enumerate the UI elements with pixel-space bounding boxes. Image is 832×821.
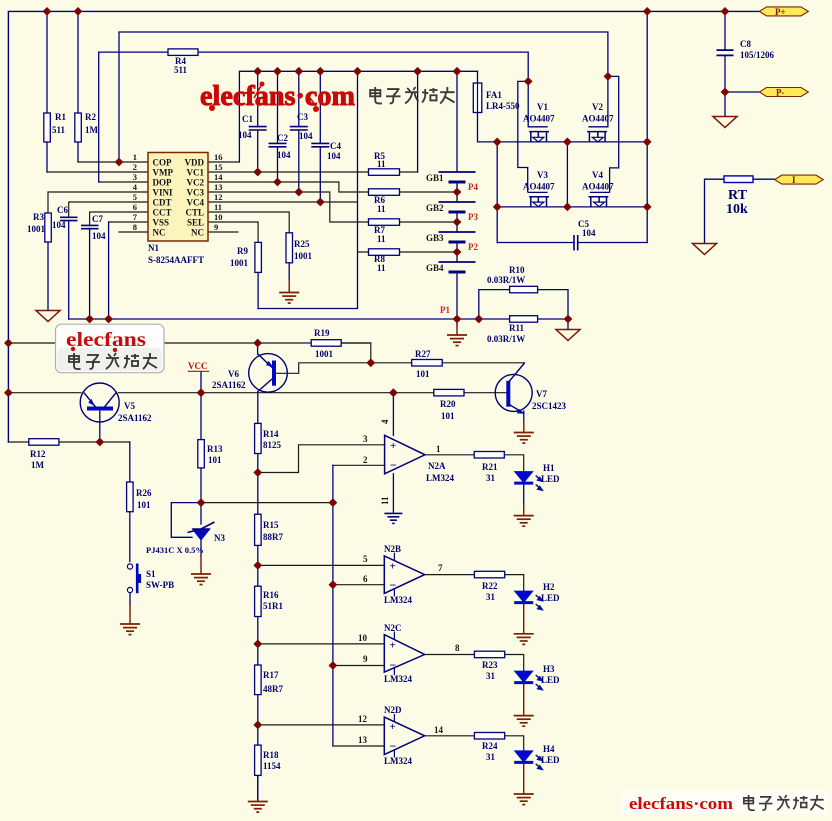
- wire P1 ground stem: [456, 319, 458, 325]
- svg-text:−: −: [390, 739, 397, 753]
- resistor R11: [510, 316, 538, 323]
- wire gate link mid: [566, 142, 568, 207]
- resistor R10: [510, 286, 538, 293]
- wire R22 to LED H2: [505, 575, 524, 591]
- node pin6 tap: [329, 580, 338, 589]
- wire N2A output to R21: [425, 454, 474, 456]
- capacitor C7: [81, 225, 99, 228]
- ground right of R11: [556, 330, 580, 341]
- svg-text:C7: C7: [92, 214, 103, 224]
- svg-text:R23: R23: [482, 660, 498, 670]
- svg-text:1154: 1154: [263, 761, 281, 771]
- wire N2C pin10 row: [258, 643, 385, 645]
- resistor R26: [127, 482, 134, 512]
- wire C6 lead to B- bus: [68, 220, 70, 319]
- resistor R19: [311, 340, 341, 347]
- wire N2B output to R22: [425, 574, 475, 576]
- resistor R16: [255, 586, 262, 616]
- wire R23 to LED H3: [505, 655, 524, 672]
- svg-text:11: 11: [380, 496, 390, 505]
- wire R18 ground stem: [257, 775, 259, 801]
- fuse FA1: [473, 83, 482, 113]
- wire LED H2 ground stem: [523, 603, 525, 634]
- svg-text:NC: NC: [153, 228, 166, 238]
- svg-text:LED: LED: [541, 593, 560, 603]
- wire R21 to LED H1: [504, 455, 523, 472]
- battery GB3: [439, 232, 476, 242]
- wire R13 to N3: [200, 468, 202, 524]
- capacitor C6: [60, 217, 78, 220]
- svg-text:elecfans: elecfans: [66, 329, 146, 351]
- svg-text:R21: R21: [482, 462, 498, 472]
- node R15 R16 tap: [253, 561, 262, 570]
- transistor V4 AO4407: [589, 192, 610, 207]
- wire V6 base jog: [276, 363, 371, 374]
- svg-text:GB4: GB4: [426, 263, 444, 273]
- wire R3 lead to ground: [47, 242, 49, 311]
- port tag P+: [759, 7, 808, 16]
- wire N2B pin5 row: [258, 564, 385, 566]
- wire P- ground stem: [724, 92, 726, 117]
- svg-text:2: 2: [133, 162, 137, 172]
- node Vref N3: [197, 498, 206, 507]
- label GB1-GB4: [426, 173, 444, 273]
- svg-text:1: 1: [133, 152, 137, 162]
- svg-text:LM324: LM324: [384, 595, 412, 605]
- transistor V2 AO4407: [587, 76, 619, 192]
- IC N1 pin names: [153, 158, 205, 238]
- svg-text:1001: 1001: [315, 349, 334, 359]
- wire pin1 row: [78, 161, 148, 163]
- svg-text:V2: V2: [592, 102, 603, 112]
- capacitor C3: [290, 127, 308, 130]
- svg-text:12: 12: [214, 192, 223, 202]
- resistor R1: [44, 113, 51, 142]
- svg-text:R3: R3: [33, 212, 44, 222]
- svg-text:P4: P4: [468, 182, 478, 192]
- svg-text:R12: R12: [30, 449, 46, 459]
- svg-text:11: 11: [377, 263, 386, 273]
- svg-text:R15: R15: [263, 520, 279, 530]
- diode LED H4: [514, 751, 542, 770]
- svg-text:R1: R1: [55, 112, 66, 122]
- svg-text:N2C: N2C: [384, 623, 402, 633]
- wire pin7 drop to B- bus: [108, 222, 110, 319]
- opamp N2C LM324: [384, 632, 424, 676]
- svg-text:511: 511: [174, 65, 188, 75]
- svg-text:GB3: GB3: [426, 233, 444, 243]
- node R19 to R27: [366, 358, 375, 367]
- wire V5 base stem: [99, 409, 101, 443]
- ground under N3: [191, 574, 211, 585]
- resistor R14: [255, 423, 262, 453]
- wire V7 emitter ground stem: [523, 411, 525, 420]
- resistor R20: [434, 389, 464, 396]
- svg-text:N1: N1: [148, 243, 159, 253]
- svg-text:V7: V7: [536, 389, 547, 399]
- wire R9 bottom loop: [257, 272, 259, 308]
- node R17 R18 tap: [253, 721, 262, 730]
- wire C7 lead to B- bus: [89, 228, 91, 319]
- wire FA1 leads: [478, 71, 498, 142]
- svg-text:2SA1162: 2SA1162: [118, 413, 152, 423]
- capacitor C4: [311, 143, 329, 146]
- svg-text:101: 101: [441, 411, 455, 421]
- node inverting rail top: [329, 498, 338, 507]
- svg-text:C3: C3: [297, 112, 308, 122]
- wire VC4 riser and R8 feed: [258, 71, 357, 308]
- svg-text:VDD: VDD: [185, 158, 205, 168]
- battery GB4: [439, 262, 476, 272]
- svg-text:1001: 1001: [294, 251, 313, 261]
- resistor R8: [369, 249, 400, 256]
- wire S1 to ground: [129, 593, 131, 605]
- svg-text:5: 5: [363, 554, 368, 564]
- resistor R18: [255, 745, 262, 775]
- svg-text:10: 10: [214, 212, 223, 222]
- node R16 R17 tap: [253, 640, 262, 649]
- svg-text:4: 4: [380, 419, 390, 424]
- svg-text:VC3: VC3: [187, 188, 205, 198]
- node junctions on source rows: [493, 138, 502, 147]
- svg-text:+: +: [390, 561, 396, 573]
- svg-text:−: −: [390, 578, 397, 592]
- svg-text:H3: H3: [543, 664, 555, 674]
- svg-text:104: 104: [299, 131, 313, 141]
- wire N2A pin4 riser: [392, 393, 394, 436]
- wire pin7 row: [109, 221, 148, 223]
- watermark bottom right: [621, 790, 829, 814]
- diode LED H1: [514, 472, 542, 491]
- svg-text:V1: V1: [537, 102, 548, 112]
- resistor R21: [474, 452, 504, 459]
- svg-text:VC4: VC4: [187, 198, 205, 208]
- resistor R23: [474, 651, 504, 658]
- svg-text:11: 11: [377, 204, 386, 214]
- port tag T: [775, 175, 824, 184]
- svg-text:H4: H4: [543, 744, 555, 754]
- svg-text:V4: V4: [592, 170, 603, 180]
- resistor RT: [724, 176, 753, 183]
- wire R10 loop: [479, 290, 568, 319]
- resistor R15: [255, 514, 262, 545]
- svg-text:elecfans·com: elecfans·com: [200, 80, 355, 112]
- wire C5 row: [497, 242, 647, 244]
- node VCC join: [197, 388, 206, 397]
- svg-text:P-: P-: [776, 87, 785, 97]
- svg-text:LM324: LM324: [384, 674, 412, 684]
- svg-text:8: 8: [455, 643, 460, 653]
- svg-text:511: 511: [52, 125, 66, 135]
- wire V3V4 source row: [497, 206, 647, 208]
- svg-text:101: 101: [416, 369, 430, 379]
- wire pin9 stub: [208, 231, 238, 233]
- svg-text:P3: P3: [468, 212, 478, 222]
- wire R24 to LED H4: [505, 736, 524, 751]
- resistor R3: [45, 213, 52, 242]
- wire V6 collector to R14: [257, 392, 259, 424]
- svg-text:105/1206: 105/1206: [740, 50, 775, 60]
- svg-text:12: 12: [358, 714, 368, 724]
- node junctions on VDD bus: [253, 67, 262, 76]
- svg-text:C4: C4: [330, 141, 341, 151]
- svg-text:2: 2: [363, 455, 368, 465]
- svg-text:V6: V6: [228, 369, 239, 379]
- svg-text:V5: V5: [124, 401, 135, 411]
- wire N3 ref loop: [171, 503, 201, 538]
- svg-text:VMP: VMP: [153, 168, 174, 178]
- svg-text:AO4407: AO4407: [523, 114, 555, 124]
- svg-text:R19: R19: [314, 328, 330, 338]
- svg-text:elecfans·com: elecfans·com: [629, 794, 733, 813]
- capacitor C2: [269, 143, 287, 146]
- transistor V3 AO4407: [518, 81, 549, 206]
- svg-text:PJ431C X 0.5%: PJ431C X 0.5%: [146, 545, 204, 555]
- node V1 drain: [524, 77, 533, 86]
- svg-text:GB2: GB2: [426, 203, 444, 213]
- svg-text:VCC: VCC: [188, 361, 208, 371]
- svg-text:48R7: 48R7: [263, 684, 283, 694]
- svg-text:14: 14: [214, 172, 223, 182]
- svg-text:GB1: GB1: [426, 173, 444, 183]
- svg-text:LM324: LM324: [384, 756, 412, 766]
- wire battery stack: [456, 182, 458, 319]
- wire R12 row: [8, 441, 129, 443]
- wire VDD bus: [239, 71, 477, 162]
- node V6 emitter tap: [253, 339, 262, 348]
- wire R2 leads: [77, 11, 79, 162]
- wire pin2 row: [47, 171, 148, 173]
- svg-text:R25: R25: [294, 239, 310, 249]
- svg-text:101: 101: [208, 455, 222, 465]
- svg-text:COP: COP: [153, 158, 173, 168]
- resistor R6: [369, 189, 400, 196]
- diode LED H2: [514, 591, 542, 610]
- wire pin15 VC1 row: [208, 171, 418, 173]
- ground under S1: [120, 624, 140, 635]
- node V5 base R12: [95, 438, 104, 447]
- svg-text:AO4407: AO4407: [523, 182, 555, 192]
- svg-text:8: 8: [133, 222, 137, 232]
- svg-text:R10: R10: [509, 265, 525, 275]
- svg-text:2SC1423: 2SC1423: [532, 401, 567, 411]
- battery GB1: [439, 172, 476, 182]
- svg-text:0.03R/1W: 0.03R/1W: [487, 275, 525, 285]
- capacitor C1: [249, 127, 267, 130]
- wire C3 leads: [298, 71, 300, 192]
- label P4 P3 P2 P1 red: [440, 182, 478, 315]
- svg-text:LM324: LM324: [426, 473, 454, 483]
- node left border to V5: [4, 388, 13, 397]
- wire R11 ground stem: [567, 319, 569, 330]
- ground under R25: [288, 263, 290, 280]
- watermark top elecfans.com: [200, 80, 455, 112]
- wire N2C output to R23: [425, 654, 475, 656]
- wire pin12 VC4 row: [208, 201, 358, 203]
- svg-text:104: 104: [582, 228, 596, 238]
- svg-text:I: I: [792, 175, 796, 185]
- svg-text:LED: LED: [541, 675, 560, 685]
- svg-text:LED: LED: [541, 474, 560, 484]
- wire COP net (pin1 to V2 drain): [119, 32, 608, 162]
- svg-text:1M: 1M: [31, 460, 45, 470]
- wire P- row: [725, 91, 759, 93]
- wire R8 row: [358, 251, 458, 253]
- resistor R17: [255, 665, 262, 695]
- wire C4 leads: [319, 71, 321, 202]
- svg-text:N3: N3: [214, 533, 225, 543]
- svg-text:11: 11: [377, 234, 386, 244]
- wire R26 leads: [129, 442, 131, 562]
- IC U N1 S-8254AAFFT body: [148, 153, 208, 242]
- node V2 drain: [604, 72, 613, 81]
- wire pin4 row to R3: [48, 192, 148, 213]
- node battery taps P4 P3 P2: [453, 188, 462, 197]
- wire pin14 VC2 row with jog to R6: [208, 182, 457, 192]
- svg-text:7: 7: [438, 563, 443, 573]
- svg-text:LED: LED: [541, 755, 560, 765]
- svg-text:1001: 1001: [230, 258, 249, 268]
- svg-text:R24: R24: [482, 741, 498, 751]
- transistor V7 2SC1423: [495, 363, 532, 414]
- svg-text:CCT: CCT: [153, 208, 172, 218]
- svg-text:S-8254AAFFT: S-8254AAFFT: [148, 255, 204, 265]
- svg-text:+: +: [390, 440, 396, 452]
- wire gate link left: [496, 142, 498, 243]
- watermark logo box middle left: [56, 324, 165, 373]
- svg-text:88R7: 88R7: [263, 532, 283, 542]
- ground under H3: [514, 716, 534, 727]
- svg-text:3: 3: [133, 172, 137, 182]
- wire Vref bus: [201, 502, 333, 504]
- ground under H4: [514, 794, 534, 805]
- svg-text:+: +: [390, 721, 396, 733]
- ground under RT: [693, 244, 717, 255]
- svg-text:9: 9: [363, 654, 368, 664]
- wire R19 right lead: [341, 342, 371, 344]
- svg-text:SEL: SEL: [187, 218, 204, 228]
- svg-text:R11: R11: [509, 323, 525, 333]
- svg-text:R18: R18: [263, 750, 279, 760]
- svg-text:P+: P+: [775, 7, 786, 17]
- svg-text:N2D: N2D: [384, 705, 402, 715]
- node junctions on P+ rail: [43, 7, 52, 16]
- svg-text:51R1: 51R1: [263, 601, 283, 611]
- svg-text:R14: R14: [263, 429, 279, 439]
- wire C8 leads: [724, 11, 726, 92]
- svg-text:14: 14: [434, 725, 444, 735]
- resistor R9: [255, 242, 262, 272]
- resistor R12: [29, 439, 59, 446]
- wire LED H3 ground stem: [523, 683, 525, 716]
- svg-text:DOP: DOP: [153, 178, 173, 188]
- svg-text:10: 10: [358, 633, 368, 643]
- wire VC1 riser: [417, 71, 419, 172]
- wire battery feed riser: [456, 71, 458, 172]
- wire pin13 VC3 row with jog to R7: [208, 192, 457, 222]
- svg-text:H2: H2: [543, 582, 555, 592]
- svg-text:31: 31: [486, 671, 496, 681]
- capacitor C5: [574, 235, 578, 251]
- svg-text:FA1: FA1: [486, 90, 502, 100]
- wire N2A pin3 jog: [258, 445, 385, 473]
- node C8 to P-: [721, 88, 730, 97]
- wire B- bus: [69, 318, 457, 320]
- svg-text:R13: R13: [207, 444, 223, 454]
- svg-text:11: 11: [377, 159, 386, 169]
- svg-text:1: 1: [436, 444, 441, 454]
- node opamp pin4 feed: [389, 388, 398, 397]
- svg-text:8125: 8125: [263, 440, 282, 450]
- svg-text:R27: R27: [415, 349, 431, 359]
- switch S1 SW-PB: [127, 564, 141, 594]
- wire V1V2 source row: [497, 141, 647, 143]
- svg-text:N2A: N2A: [428, 461, 446, 471]
- ground under R3: [36, 311, 60, 322]
- svg-text:RT: RT: [728, 188, 748, 203]
- svg-text:R20: R20: [440, 399, 456, 409]
- wire N2D output to R24: [425, 735, 475, 737]
- resistor R25: [286, 233, 293, 263]
- node left border to logo row: [4, 339, 13, 348]
- wire RT leads: [705, 179, 775, 243]
- wire N2D pin12 row: [258, 724, 385, 726]
- wire pin5 row to C6: [69, 202, 148, 217]
- transistor V5 2SA1162: [80, 383, 119, 422]
- wire top P+ rail: [8, 11, 759, 442]
- wire C2 leads: [277, 71, 279, 182]
- node COP: [115, 158, 124, 167]
- svg-text:P2: P2: [468, 242, 478, 252]
- svg-text:P1: P1: [440, 305, 450, 315]
- svg-text:6: 6: [363, 574, 368, 584]
- svg-text:AO4407: AO4407: [582, 182, 614, 192]
- svg-text:31: 31: [486, 592, 496, 602]
- svg-text:16: 16: [214, 152, 223, 162]
- wire pin16 row: [208, 161, 239, 163]
- capacitor C8: [717, 50, 734, 55]
- svg-text:VINI: VINI: [153, 188, 174, 198]
- wire C1 leads: [257, 71, 259, 172]
- svg-text:V3: V3: [537, 170, 548, 180]
- svg-text:CDT: CDT: [153, 198, 172, 208]
- svg-text:SW-PB: SW-PB: [146, 580, 174, 590]
- opamp N2D LM324: [384, 714, 424, 758]
- ground under H2: [514, 634, 534, 645]
- svg-text:LR4-550: LR4-550: [486, 101, 520, 111]
- svg-text:H1: H1: [543, 463, 555, 473]
- resistor R13: [198, 440, 205, 468]
- svg-text:S1: S1: [146, 569, 156, 579]
- svg-text:11: 11: [214, 202, 222, 212]
- svg-text:VC2: VC2: [187, 178, 205, 188]
- node R14 bottom tap: [253, 468, 262, 477]
- svg-text:101: 101: [137, 500, 151, 510]
- svg-text:104: 104: [92, 231, 106, 241]
- svg-text:0.03R/1W: 0.03R/1W: [487, 334, 525, 344]
- wire V6 emitter drop: [257, 343, 259, 354]
- svg-text:15: 15: [214, 162, 223, 172]
- svg-text:R2: R2: [85, 112, 96, 122]
- node junctions on B- bus: [85, 315, 94, 324]
- node junctions on VC rows: [253, 168, 262, 177]
- zener N3 PJ431C: [188, 522, 215, 540]
- ground under pin 11: [384, 513, 402, 523]
- svg-text:31: 31: [486, 473, 496, 483]
- wire R20 lead to V7: [464, 392, 506, 394]
- opamp N2B LM324: [384, 553, 424, 597]
- svg-text:104: 104: [52, 220, 66, 230]
